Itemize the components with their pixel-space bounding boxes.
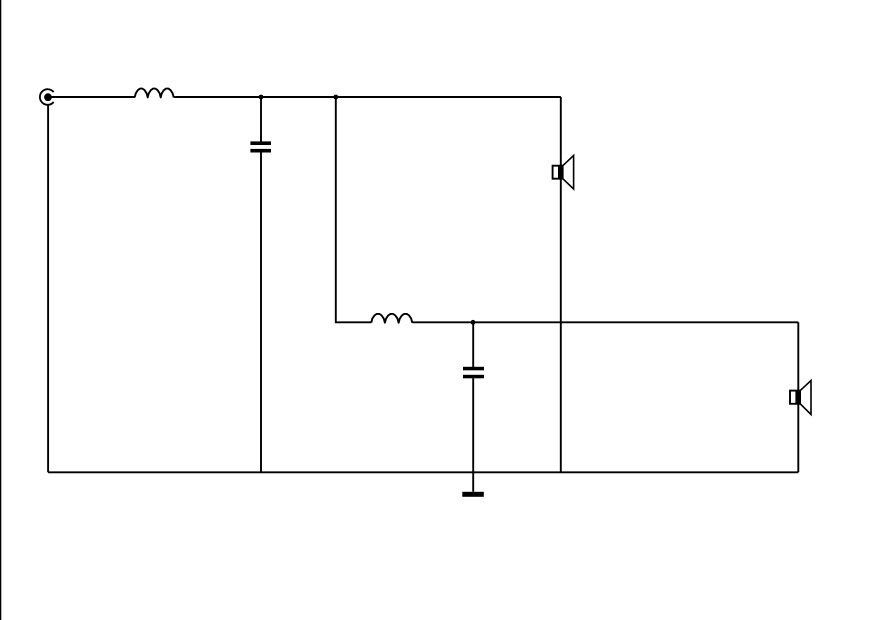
wire C1 down to bottom rail	[260, 153, 262, 473]
wire left vertical from J1	[47, 105, 49, 473]
wire tweeter branch vertical	[560, 97, 562, 472]
wire J1 to L1	[48, 96, 135, 98]
node B junction	[333, 95, 338, 100]
node C junction	[471, 320, 476, 325]
capacitor C1	[250, 141, 271, 152]
input connector J1	[40, 89, 54, 105]
node A junction	[259, 95, 264, 100]
wire right woofer branch vertical	[797, 322, 799, 472]
wire C2 down through rail to ground	[472, 378, 474, 492]
wire L2 to right corner	[412, 321, 798, 323]
speaker SP2	[790, 381, 811, 415]
wire bottom rail	[48, 471, 798, 473]
inductor L1	[135, 89, 174, 98]
inductor L2	[371, 314, 412, 323]
speaker SP1	[553, 156, 574, 190]
wire node C down to C2	[472, 322, 474, 367]
capacitor C2	[463, 367, 484, 379]
wire node B down to midband rail	[336, 97, 371, 322]
wire node A down to C1	[260, 97, 262, 142]
wire L1 to corner, top rail	[174, 96, 561, 98]
ground	[462, 492, 484, 497]
